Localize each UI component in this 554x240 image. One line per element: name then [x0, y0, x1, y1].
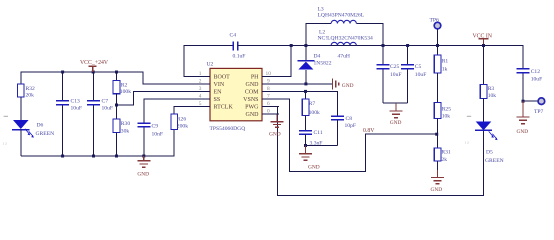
resistor R32 [17, 84, 35, 99]
svg-text:VIN: VIN [214, 82, 225, 88]
svg-text:2: 2 [199, 78, 202, 84]
svg-text:GND: GND [269, 131, 281, 137]
svg-text:R30: R30 [121, 121, 131, 127]
capacitor C25 [377, 46, 402, 103]
svg-text:U2: U2 [207, 61, 214, 67]
svg-text:10uF: 10uF [531, 76, 543, 82]
junction C12/TP7/GND [522, 100, 525, 103]
svg-text:BOOT: BOOT [214, 75, 231, 81]
svg-text:C5: C5 [415, 64, 422, 70]
junction bottom rail C9/GND [142, 155, 145, 158]
svg-text:PH: PH [251, 75, 259, 81]
svg-text:GND: GND [431, 187, 443, 193]
svg-text:200k: 200k [177, 124, 188, 130]
svg-text:NC!LQH32CN470K534: NC!LQH32CN470K534 [318, 35, 374, 41]
inductor L3 [306, 7, 383, 46]
junction top rail C7/VCC [92, 71, 95, 74]
svg-text:10nF: 10nF [152, 131, 164, 137]
wire RT/CLK net pin 5 to R26 [174, 106, 210, 114]
svg-text:0: 0 [267, 108, 270, 114]
junction out rail C5 [406, 44, 409, 47]
capacitor C11 [299, 115, 323, 146]
svg-text:C12: C12 [531, 69, 541, 75]
svg-text:C25: C25 [390, 64, 400, 70]
test point TP6 [430, 18, 441, 46]
wire bottom GND rail [21, 130, 174, 157]
wire C4 to PH node and output rail [238, 45, 523, 47]
svg-text:VCC_+24V: VCC_+24V [80, 60, 109, 66]
svg-text:0.8V: 0.8V [363, 128, 375, 134]
svg-text:D4: D4 [314, 53, 321, 59]
wire R30 to GND rail [116, 132, 118, 156]
svg-text:LQH43PN470M26L: LQH43PN470M26L [318, 12, 365, 18]
svg-text:GND: GND [342, 83, 354, 89]
svg-text:10k: 10k [488, 93, 497, 99]
wire R32 to D6 [20, 97, 22, 120]
wire R25 to R31 [437, 119, 439, 148]
svg-text:D6: D6 [37, 123, 44, 129]
junction C11 GND [304, 144, 307, 147]
wire BOOT pin 1 to C4 [184, 46, 233, 77]
svg-text:9: 9 [267, 78, 270, 84]
wire R1 to R25 [437, 73, 439, 103]
junction out rail TP6/R1 [436, 44, 439, 47]
wire VCC_+24V rail to VIN (pin 2) [21, 72, 210, 84]
svg-text:8: 8 [267, 86, 270, 92]
capacitor C7 [87, 72, 113, 156]
svg-text:C13: C13 [71, 99, 81, 105]
junction PH/D4/L nodes [304, 44, 307, 47]
wire R2 to R30 node [116, 94, 118, 119]
svg-text:10k: 10k [442, 114, 451, 120]
svg-text:VSNS: VSNS [243, 97, 258, 103]
wire COMP pin 8 to R7/C8 [262, 91, 338, 116]
IC U2 TPS54060DGQ [193, 61, 279, 132]
inductor L2 [318, 30, 374, 60]
diode D4 1N5822 [298, 46, 332, 84]
ground GND pin 11 [271, 114, 284, 128]
svg-text:TP7: TP7 [534, 109, 544, 115]
resistor R25 [434, 103, 451, 120]
svg-text:2k: 2k [441, 157, 447, 163]
wire R3 to D5 [483, 99, 485, 122]
svg-text:3: 3 [199, 86, 202, 92]
resistor R7 [302, 91, 320, 116]
LED D6 [2, 116, 54, 145]
ground GND bottom-left [137, 156, 150, 167]
svg-text:GND: GND [308, 164, 320, 170]
resistor R30 [113, 119, 130, 135]
svg-text:D5: D5 [486, 150, 493, 156]
svg-text:C7: C7 [102, 99, 109, 105]
svg-text:GREEN: GREEN [36, 131, 55, 137]
capacitor C4 [230, 32, 246, 59]
svg-text:7: 7 [267, 93, 270, 99]
svg-text:GND: GND [517, 129, 529, 135]
ground GND right of pin 9 (rotated) [333, 78, 339, 89]
svg-text:1 2: 1 2 [465, 140, 470, 144]
wire PWRGD pin 6 to D5 cathode [262, 106, 484, 195]
svg-text:GND: GND [390, 120, 402, 126]
svg-text:6: 6 [267, 101, 270, 107]
svg-text:GND: GND [246, 82, 260, 88]
svg-text:C4: C4 [230, 32, 237, 38]
ground GND below C12 [517, 101, 530, 124]
svg-text:EN: EN [214, 90, 223, 96]
junction top rail R2 [115, 71, 118, 74]
svg-text:R3: R3 [488, 86, 495, 92]
svg-text:4: 4 [199, 93, 202, 99]
svg-text:100k: 100k [120, 89, 131, 95]
wire C25/C5 bottoms [383, 102, 408, 104]
wire SS net pin 4 to C9 [144, 99, 210, 123]
capacitor C12 [517, 69, 543, 101]
svg-text:20k: 20k [26, 93, 35, 99]
svg-text:R32: R32 [26, 86, 36, 92]
resistor R1 [434, 46, 448, 74]
wire GND pin 9 [262, 83, 332, 85]
ground GND below R31 [431, 161, 444, 184]
svg-text:47uH: 47uH [338, 53, 350, 59]
junction COMP/R7 [304, 90, 307, 93]
junction VSENSE / R25-R31 [435, 133, 438, 136]
wire VSENSE pin 7 routing [262, 99, 437, 171]
junction top rail C13 [61, 71, 64, 74]
svg-text:C11: C11 [314, 130, 323, 136]
wire PH pin 10 riser [262, 46, 291, 77]
capacitor C8 [331, 116, 356, 146]
svg-text:RTCLK: RTCLK [214, 105, 234, 111]
junction out rail C25 [382, 44, 385, 47]
resistor R26 [171, 114, 188, 130]
svg-text:10uF: 10uF [390, 72, 402, 78]
svg-text:TPS54060DGQ: TPS54060DGQ [210, 126, 246, 132]
svg-text:SS: SS [214, 97, 221, 103]
wire D6 cathode to GND rail [20, 130, 22, 156]
svg-text:10uF: 10uF [71, 106, 83, 112]
svg-text:100k: 100k [309, 110, 320, 116]
junction bottom rail C7 [92, 155, 95, 158]
junction bottom rail C13 [61, 155, 64, 158]
svg-text:10uF: 10uF [415, 72, 427, 78]
svg-text:10: 10 [266, 71, 272, 77]
svg-text:R31: R31 [441, 150, 451, 156]
resistor R31 [434, 148, 451, 163]
capacitor C9 [137, 123, 163, 156]
svg-text:R1: R1 [442, 58, 449, 64]
svg-text:1 2: 1 2 [2, 142, 7, 146]
svg-text:1k: 1k [442, 66, 448, 72]
test point TP7 [523, 98, 545, 115]
power port VCC IN [473, 33, 493, 45]
svg-text:GND: GND [137, 171, 149, 177]
wire C11/C8 bottoms join [306, 145, 338, 147]
svg-text:1: 1 [199, 71, 202, 77]
wire out rail corner to C12 [522, 45, 524, 68]
svg-text:GND: GND [246, 112, 260, 118]
capacitor C5 [401, 46, 426, 103]
pin stubs right [262, 76, 279, 114]
svg-text:COM: COM [245, 90, 259, 96]
power port VCC_+24V [80, 60, 109, 72]
svg-text:PWG: PWG [245, 105, 259, 111]
svg-text:C8: C8 [346, 116, 353, 122]
svg-text:C9: C9 [152, 124, 159, 130]
svg-text:R25: R25 [442, 107, 452, 113]
resistor R3 [480, 46, 496, 99]
junction EN divider node [115, 104, 118, 107]
junction out rail VCC IN/R3 [482, 44, 485, 47]
resistor R2 [113, 72, 131, 95]
wire GND pin 11 stub [262, 113, 279, 115]
pin stubs left [193, 76, 210, 106]
svg-text:10uF: 10uF [102, 106, 114, 112]
svg-text:1N5822: 1N5822 [314, 60, 332, 66]
LED D5 [465, 116, 504, 164]
wire EN net divider to pin 3 [117, 91, 211, 105]
junction bottom rail R30 [115, 155, 118, 158]
junction D4 anode / GND wire [304, 82, 307, 85]
ground GND below C11 [299, 146, 312, 161]
junction PH/C4 node [290, 44, 293, 47]
svg-text:R7: R7 [309, 101, 316, 107]
svg-text:GREEN: GREEN [485, 158, 504, 164]
svg-text:R26: R26 [177, 116, 187, 122]
svg-text:10pF: 10pF [345, 123, 357, 129]
svg-text:5: 5 [199, 101, 202, 107]
ground GND below C25/C5 [390, 103, 403, 118]
svg-text:R2: R2 [121, 82, 128, 88]
capacitor C13 [56, 72, 82, 156]
svg-text:30k: 30k [121, 129, 130, 135]
svg-text:0.1uF: 0.1uF [233, 53, 246, 59]
